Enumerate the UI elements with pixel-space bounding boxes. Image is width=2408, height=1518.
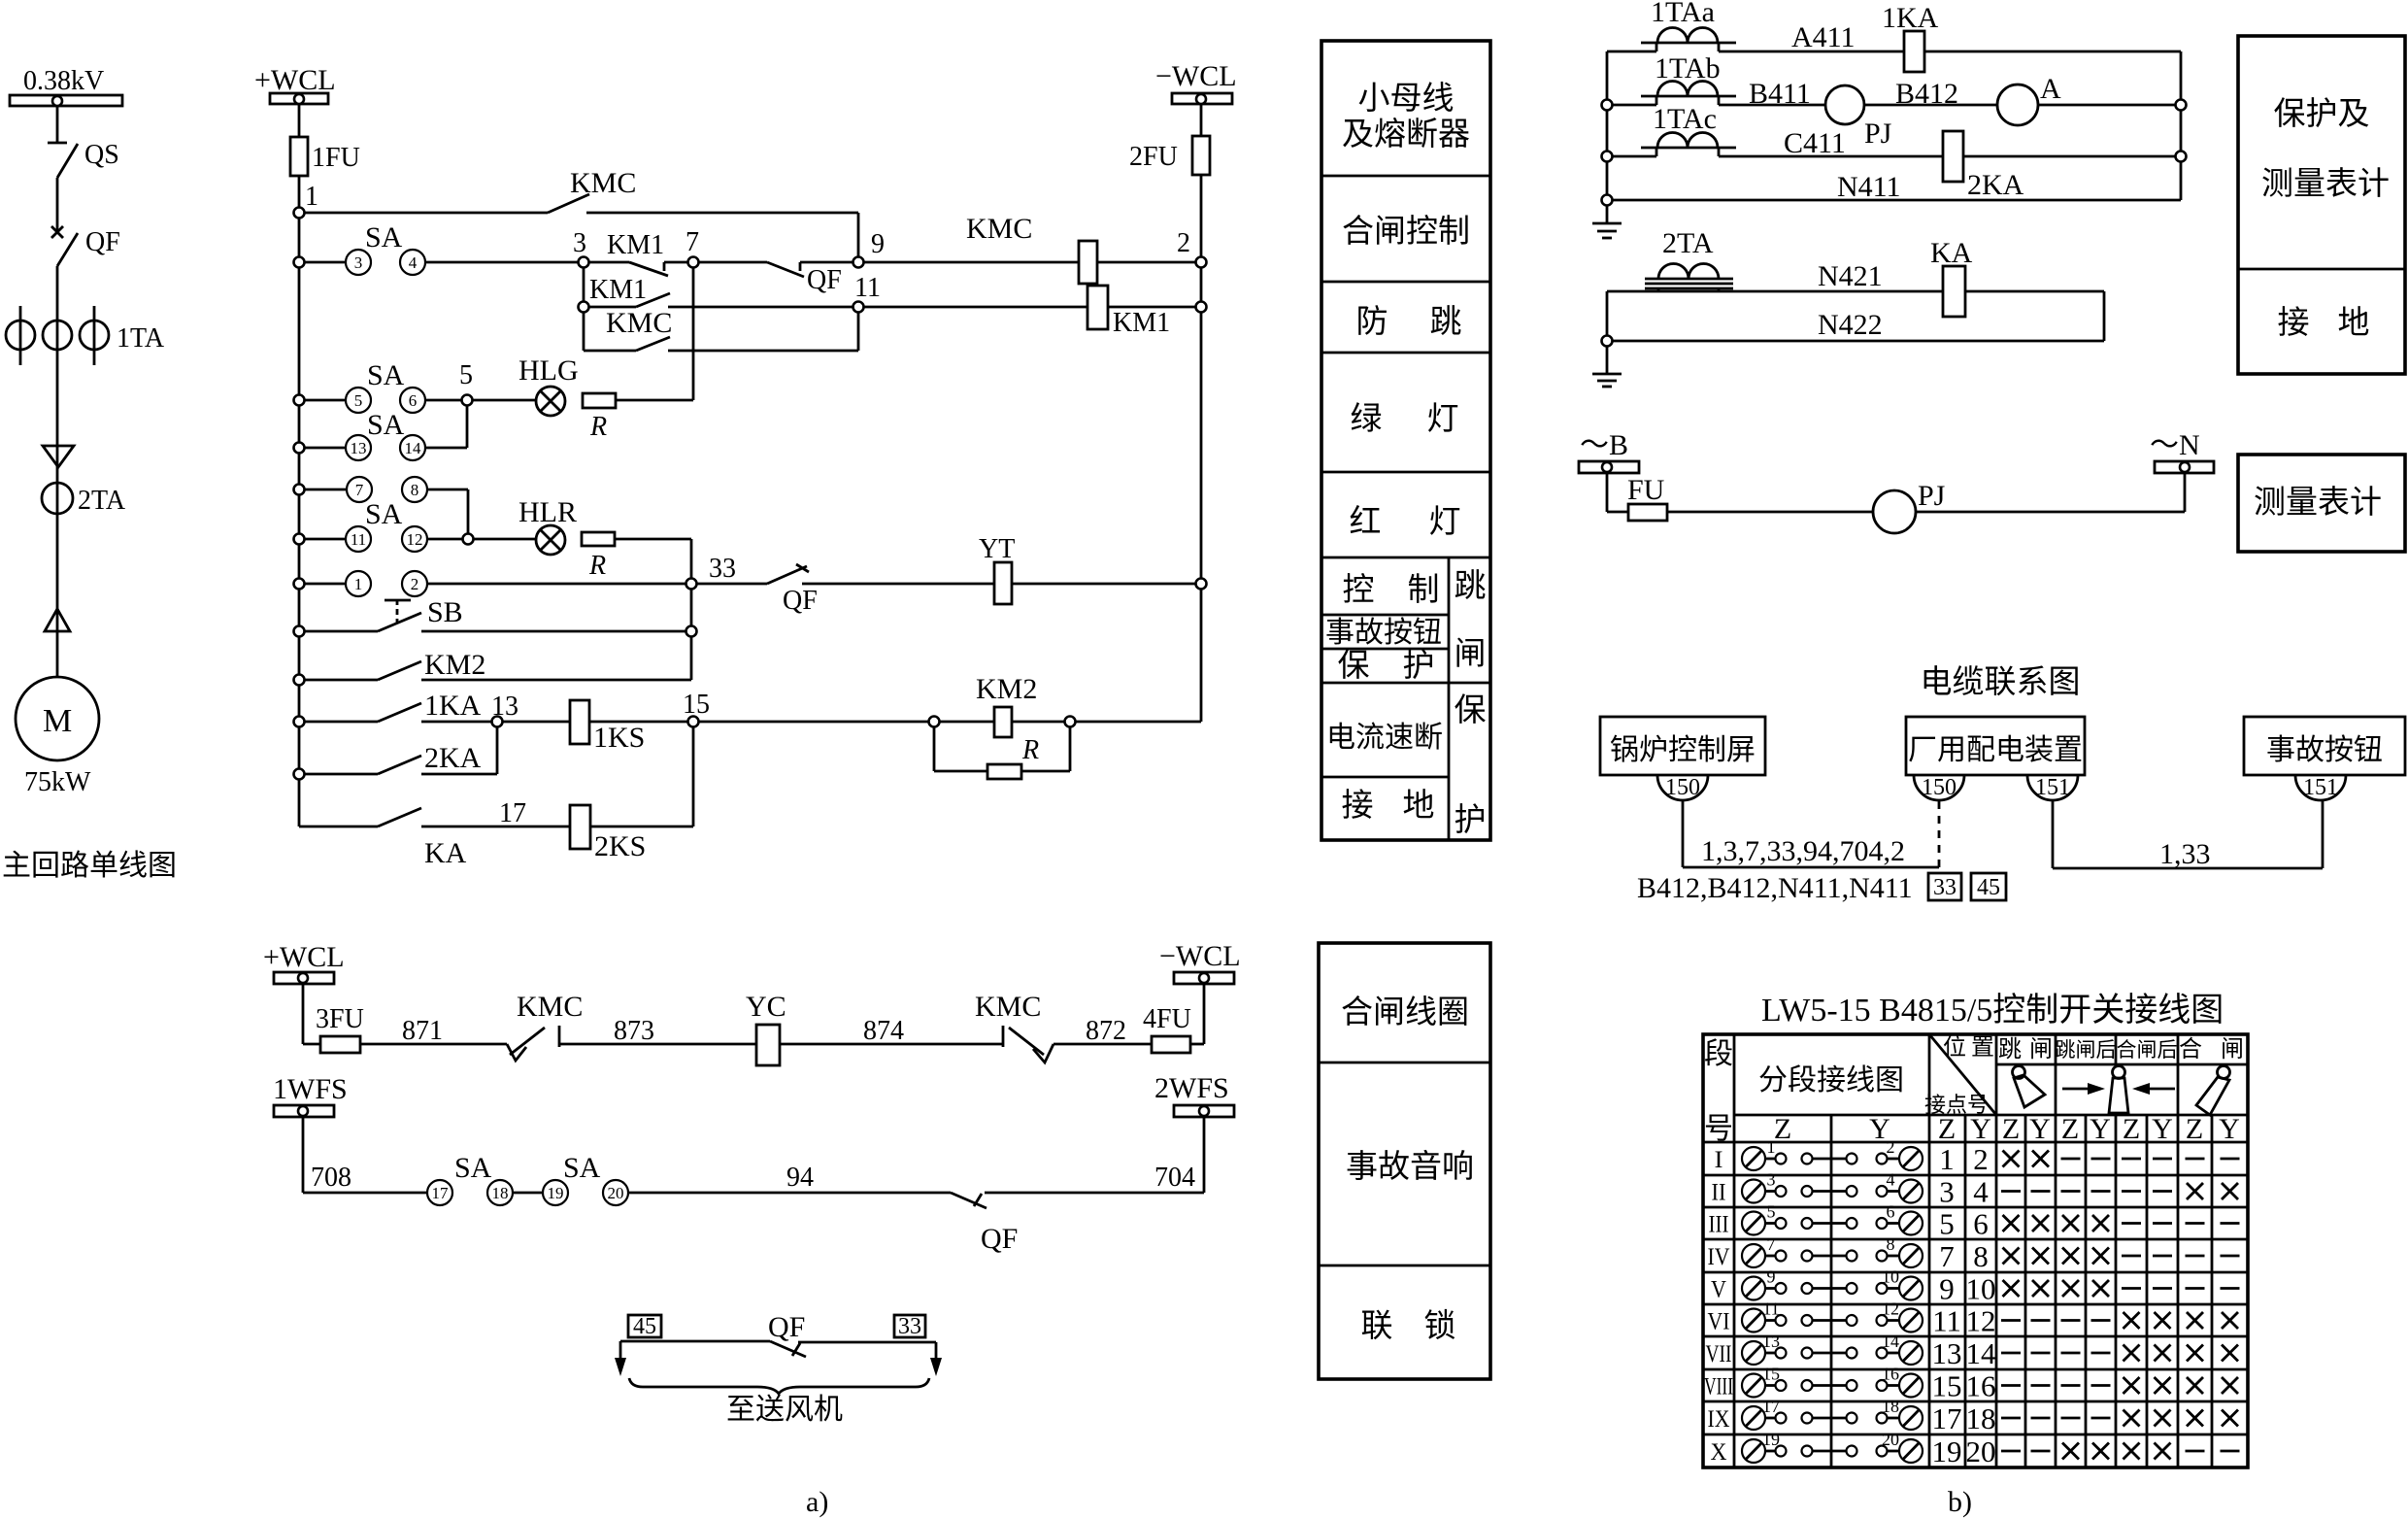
svg-text:9: 9 xyxy=(1767,1267,1776,1287)
svg-text:HLR: HLR xyxy=(518,496,577,528)
svg-text:SA: SA xyxy=(367,409,405,441)
svg-text:SA: SA xyxy=(365,221,403,253)
svg-text:2KA: 2KA xyxy=(424,742,482,774)
svg-text:6: 6 xyxy=(409,391,418,410)
svg-text:SA: SA xyxy=(365,498,403,530)
svg-text:1WFS: 1WFS xyxy=(273,1073,348,1105)
svg-text:M: M xyxy=(43,703,72,739)
svg-text:3: 3 xyxy=(354,253,363,272)
svg-text:19: 19 xyxy=(1762,1430,1780,1449)
svg-text:3: 3 xyxy=(1767,1170,1776,1190)
svg-text:N411: N411 xyxy=(1837,171,1901,203)
svg-text:Z: Z xyxy=(1774,1113,1791,1145)
svg-text:KA: KA xyxy=(424,837,467,869)
svg-text:18: 18 xyxy=(1966,1401,1996,1435)
svg-text:14: 14 xyxy=(1966,1336,1997,1370)
svg-text:7: 7 xyxy=(355,481,364,499)
svg-text:SA: SA xyxy=(563,1152,601,1184)
svg-text:12: 12 xyxy=(1966,1304,1996,1338)
svg-text:制: 制 xyxy=(1408,573,1440,608)
svg-text:+WCL: +WCL xyxy=(263,941,345,973)
svg-text:1FU: 1FU xyxy=(312,143,360,173)
svg-text:10: 10 xyxy=(1882,1267,1899,1287)
svg-text:Y: Y xyxy=(2090,1113,2111,1145)
svg-text:FU: FU xyxy=(1627,474,1665,506)
svg-text:QF: QF xyxy=(807,265,842,295)
svg-text:Z: Z xyxy=(2002,1113,2020,1145)
svg-text:合闸后: 合闸后 xyxy=(2117,1038,2178,1062)
svg-text:871: 871 xyxy=(402,1016,443,1046)
svg-text:跳: 跳 xyxy=(1430,304,1462,340)
svg-text:45: 45 xyxy=(1977,875,2000,900)
svg-text:SB: SB xyxy=(427,596,463,628)
svg-text:KMC: KMC xyxy=(966,213,1032,245)
svg-text:+WCL: +WCL xyxy=(254,64,336,96)
svg-text:～B: ～B xyxy=(1580,429,1628,461)
svg-text:2: 2 xyxy=(1973,1142,1989,1176)
svg-text:B412,B412,N411,N411: B412,B412,N411,N411 xyxy=(1637,872,1913,904)
svg-text:17: 17 xyxy=(1932,1401,1962,1435)
svg-text:18: 18 xyxy=(1882,1397,1899,1416)
svg-text:SA: SA xyxy=(454,1152,492,1184)
svg-text:−WCL: −WCL xyxy=(1159,940,1241,972)
svg-text:事故按钮: 事故按钮 xyxy=(2266,734,2383,766)
svg-text:KA: KA xyxy=(1930,237,1973,269)
svg-text:跳: 跳 xyxy=(1455,568,1487,604)
svg-text:a): a) xyxy=(806,1486,828,1518)
svg-text:Y: Y xyxy=(2029,1113,2051,1145)
svg-text:5: 5 xyxy=(1939,1207,1955,1241)
svg-text:45: 45 xyxy=(633,1314,656,1339)
svg-text:3: 3 xyxy=(573,228,586,258)
svg-text:KMC: KMC xyxy=(975,991,1041,1023)
svg-text:VII: VII xyxy=(1706,1341,1732,1367)
svg-text:873: 873 xyxy=(614,1016,654,1046)
svg-text:1: 1 xyxy=(354,575,363,593)
svg-text:20: 20 xyxy=(608,1184,624,1202)
svg-text:1TA: 1TA xyxy=(117,323,165,354)
svg-text:N421: N421 xyxy=(1818,260,1883,292)
svg-text:14: 14 xyxy=(405,439,422,457)
svg-text:C411: C411 xyxy=(1784,127,1846,159)
svg-text:闸: 闸 xyxy=(1455,637,1487,672)
svg-text:合闸控制: 合闸控制 xyxy=(1342,214,1470,250)
svg-text:控: 控 xyxy=(1343,572,1375,608)
svg-text:11: 11 xyxy=(1762,1299,1779,1319)
svg-text:0.38kV: 0.38kV xyxy=(23,66,104,96)
svg-text:主回路单线图: 主回路单线图 xyxy=(2,850,177,882)
svg-text:保: 保 xyxy=(1338,649,1370,684)
svg-text:33: 33 xyxy=(709,554,736,584)
svg-text:2FU: 2FU xyxy=(1129,142,1178,172)
svg-text:Z: Z xyxy=(2123,1113,2140,1145)
svg-text:KM1: KM1 xyxy=(1113,308,1170,338)
svg-text:11: 11 xyxy=(351,530,366,549)
svg-text:10: 10 xyxy=(1966,1272,1996,1306)
svg-text:A411: A411 xyxy=(1791,21,1856,53)
svg-text:灯: 灯 xyxy=(1427,402,1459,437)
svg-text:4FU: 4FU xyxy=(1143,1004,1191,1034)
svg-text:8: 8 xyxy=(1973,1239,1989,1273)
svg-text:1: 1 xyxy=(305,182,318,212)
svg-text:LW5-15 B4815/5控制开关接线图: LW5-15 B4815/5控制开关接线图 xyxy=(1761,992,2224,1029)
svg-text:YT: YT xyxy=(979,534,1015,564)
svg-text:位: 位 xyxy=(1943,1034,1966,1061)
svg-text:KM1: KM1 xyxy=(607,230,664,260)
svg-text:R: R xyxy=(1021,735,1039,765)
svg-text:地: 地 xyxy=(2338,305,2370,341)
svg-text:QF: QF xyxy=(85,227,120,257)
svg-text:18: 18 xyxy=(492,1184,509,1202)
svg-text:绿: 绿 xyxy=(1351,401,1383,437)
svg-text:1: 1 xyxy=(1939,1142,1955,1176)
svg-text:合闸线圈: 合闸线圈 xyxy=(1341,995,1469,1030)
svg-text:接: 接 xyxy=(2278,306,2310,341)
svg-text:I: I xyxy=(1715,1147,1723,1173)
svg-text:锅炉控制屏: 锅炉控制屏 xyxy=(1610,734,1756,766)
svg-text:19: 19 xyxy=(548,1184,564,1202)
svg-text:Y: Y xyxy=(2219,1113,2240,1145)
svg-text:至送风机: 至送风机 xyxy=(726,1394,843,1426)
svg-text:保护及: 保护及 xyxy=(2274,96,2370,132)
svg-text:13: 13 xyxy=(1762,1332,1780,1351)
svg-text:IV: IV xyxy=(1708,1244,1730,1270)
svg-text:及熔断器: 及熔断器 xyxy=(1342,117,1470,152)
svg-text:7: 7 xyxy=(686,227,699,257)
svg-text:锁: 锁 xyxy=(1424,1308,1456,1344)
svg-text:8: 8 xyxy=(411,481,419,499)
svg-text:704: 704 xyxy=(1154,1163,1195,1193)
svg-text:1: 1 xyxy=(1767,1137,1776,1157)
svg-text:15: 15 xyxy=(1762,1365,1780,1384)
svg-text:94: 94 xyxy=(786,1163,814,1193)
svg-text:6: 6 xyxy=(1887,1202,1895,1222)
svg-text:b): b) xyxy=(1948,1486,1972,1518)
svg-text:11: 11 xyxy=(854,273,881,303)
svg-text:KM1: KM1 xyxy=(589,275,647,305)
svg-text:V: V xyxy=(1711,1277,1726,1303)
svg-text:II: II xyxy=(1712,1180,1726,1206)
svg-text:QF: QF xyxy=(768,1311,805,1343)
svg-text:Y: Y xyxy=(2152,1113,2173,1145)
svg-text:20: 20 xyxy=(1882,1430,1899,1449)
svg-text:9: 9 xyxy=(871,229,885,259)
svg-text:2: 2 xyxy=(1177,228,1190,258)
svg-text:2TA: 2TA xyxy=(1662,227,1714,259)
svg-text:2: 2 xyxy=(411,575,419,593)
svg-text:17: 17 xyxy=(432,1184,450,1202)
svg-text:Z: Z xyxy=(2186,1113,2203,1145)
svg-text:Y: Y xyxy=(1970,1113,1991,1145)
svg-text:合: 合 xyxy=(2179,1036,2202,1063)
svg-text:闸: 闸 xyxy=(2029,1036,2053,1063)
svg-text:2WFS: 2WFS xyxy=(1154,1072,1229,1104)
svg-text:1,3,7,33,94,704,2: 1,3,7,33,94,704,2 xyxy=(1701,835,1905,867)
svg-text:6: 6 xyxy=(1973,1207,1989,1241)
svg-text:HLG: HLG xyxy=(518,354,579,387)
svg-text:151: 151 xyxy=(2303,775,2338,800)
svg-text:IX: IX xyxy=(1708,1406,1730,1433)
svg-text:测量表计: 测量表计 xyxy=(2261,166,2390,202)
svg-text:9: 9 xyxy=(1939,1272,1955,1306)
svg-text:3FU: 3FU xyxy=(316,1004,364,1034)
svg-text:3: 3 xyxy=(1939,1175,1955,1209)
svg-text:5: 5 xyxy=(459,360,473,390)
svg-text:708: 708 xyxy=(311,1163,351,1193)
svg-text:KM2: KM2 xyxy=(976,673,1037,705)
svg-text:14: 14 xyxy=(1882,1332,1899,1351)
svg-text:KM2: KM2 xyxy=(424,649,485,681)
svg-text:VI: VI xyxy=(1708,1309,1730,1335)
svg-text:2KS: 2KS xyxy=(594,830,646,862)
svg-text:13: 13 xyxy=(1932,1336,1962,1370)
svg-text:33: 33 xyxy=(898,1314,921,1339)
svg-text:75kW: 75kW xyxy=(24,767,91,797)
svg-text:小母线: 小母线 xyxy=(1358,81,1455,117)
svg-text:R: R xyxy=(588,551,606,581)
svg-text:YC: YC xyxy=(746,991,786,1023)
svg-text:151: 151 xyxy=(2035,775,2070,800)
svg-text:4: 4 xyxy=(1973,1175,1989,1209)
svg-text:SA: SA xyxy=(367,359,405,391)
svg-text:N422: N422 xyxy=(1818,309,1883,341)
svg-text:QF: QF xyxy=(981,1223,1018,1255)
svg-text:地: 地 xyxy=(1403,788,1435,824)
svg-text:16: 16 xyxy=(1882,1365,1899,1384)
svg-text:15: 15 xyxy=(683,690,710,720)
svg-text:17: 17 xyxy=(499,798,526,828)
svg-text:150: 150 xyxy=(1922,775,1956,800)
svg-text:防: 防 xyxy=(1356,304,1388,340)
svg-text:X: X xyxy=(1711,1439,1727,1466)
svg-text:护: 护 xyxy=(1455,802,1487,838)
svg-text:灯: 灯 xyxy=(1429,505,1461,540)
svg-text:150: 150 xyxy=(1665,775,1700,800)
svg-text:1KA: 1KA xyxy=(1882,2,1939,34)
svg-text:15: 15 xyxy=(1932,1369,1962,1403)
svg-text:PJ: PJ xyxy=(1918,480,1946,512)
svg-text:闸: 闸 xyxy=(2221,1036,2244,1063)
svg-text:QF: QF xyxy=(783,586,818,616)
svg-text:KMC: KMC xyxy=(606,307,672,339)
svg-text:2: 2 xyxy=(1887,1137,1895,1157)
svg-text:1KA: 1KA xyxy=(424,690,482,722)
svg-text:12: 12 xyxy=(1882,1299,1899,1319)
svg-text:置: 置 xyxy=(1971,1035,1994,1061)
svg-text:跳闸后: 跳闸后 xyxy=(2056,1038,2117,1062)
svg-text:2KA: 2KA xyxy=(1967,169,2024,201)
svg-text:护: 护 xyxy=(1403,648,1435,684)
svg-text:874: 874 xyxy=(863,1016,904,1046)
svg-text:QS: QS xyxy=(84,140,119,170)
svg-text:事故按钮: 事故按钮 xyxy=(1325,617,1442,649)
svg-text:号: 号 xyxy=(1704,1113,1733,1145)
svg-text:红: 红 xyxy=(1350,504,1382,540)
svg-text:B412: B412 xyxy=(1895,78,1958,110)
svg-text:4: 4 xyxy=(1887,1170,1895,1190)
svg-text:B411: B411 xyxy=(1749,78,1811,110)
svg-text:联: 联 xyxy=(1361,1309,1393,1344)
svg-text:12: 12 xyxy=(407,530,423,549)
svg-text:20: 20 xyxy=(1966,1434,1996,1468)
svg-text:17: 17 xyxy=(1762,1397,1780,1416)
svg-text:保: 保 xyxy=(1455,693,1487,728)
svg-text:33: 33 xyxy=(1933,875,1956,900)
svg-text:R: R xyxy=(589,412,607,442)
svg-text:8: 8 xyxy=(1887,1234,1895,1254)
svg-text:16: 16 xyxy=(1966,1369,1996,1403)
svg-text:接: 接 xyxy=(1342,789,1374,824)
svg-text:段: 段 xyxy=(1704,1038,1733,1070)
svg-text:PJ: PJ xyxy=(1864,118,1892,150)
svg-text:电流速断: 电流速断 xyxy=(1326,722,1443,754)
svg-text:跳: 跳 xyxy=(1998,1036,2022,1063)
svg-text:13: 13 xyxy=(351,439,367,457)
svg-text:厂用配电装置: 厂用配电装置 xyxy=(1908,734,2083,766)
svg-text:A: A xyxy=(2040,73,2061,105)
svg-text:11: 11 xyxy=(1932,1304,1961,1338)
svg-text:−WCL: −WCL xyxy=(1155,60,1237,92)
svg-text:VIII: VIII xyxy=(1704,1374,1733,1400)
svg-text:4: 4 xyxy=(409,253,418,272)
svg-text:7: 7 xyxy=(1767,1234,1776,1254)
svg-text:III: III xyxy=(1709,1212,1729,1238)
svg-text:1TAc: 1TAc xyxy=(1653,103,1717,135)
svg-text:事故音响: 事故音响 xyxy=(1346,1149,1474,1185)
svg-text:1,33: 1,33 xyxy=(2159,838,2211,870)
svg-text:1TAa: 1TAa xyxy=(1651,0,1715,28)
svg-text:测量表计: 测量表计 xyxy=(2254,485,2382,521)
svg-text:～N: ～N xyxy=(2150,429,2200,461)
svg-text:1TAb: 1TAb xyxy=(1655,52,1721,84)
svg-text:7: 7 xyxy=(1939,1239,1955,1273)
svg-text:872: 872 xyxy=(1086,1016,1126,1046)
svg-text:19: 19 xyxy=(1932,1434,1962,1468)
svg-text:KMC: KMC xyxy=(517,991,583,1023)
svg-text:Z: Z xyxy=(2061,1113,2079,1145)
svg-text:5: 5 xyxy=(354,391,363,410)
svg-text:分段接线图: 分段接线图 xyxy=(1758,1064,1904,1096)
svg-text:KMC: KMC xyxy=(570,167,636,199)
svg-text:5: 5 xyxy=(1767,1202,1776,1222)
svg-text:Z: Z xyxy=(1938,1113,1956,1145)
svg-text:2TA: 2TA xyxy=(78,486,126,516)
svg-text:电缆联系图: 电缆联系图 xyxy=(1921,664,2081,700)
svg-text:1KS: 1KS xyxy=(593,722,645,754)
